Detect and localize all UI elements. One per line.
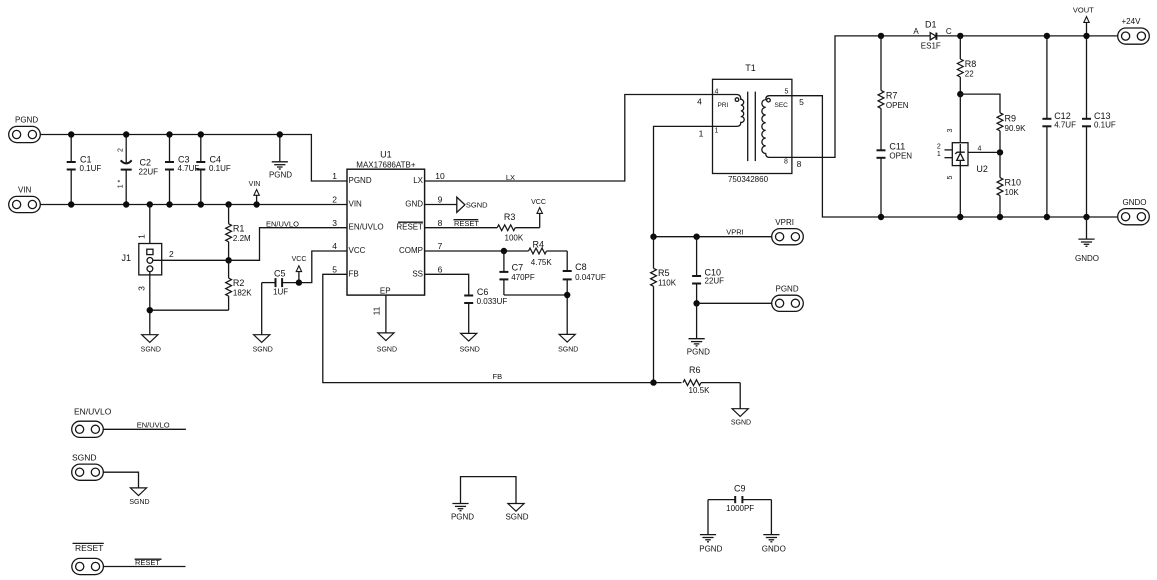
svg-text:4: 4 [978,146,982,153]
junction C13/GNDO rail [1083,214,1089,220]
svg-text:1UF: 1UF [273,288,288,297]
resistor R7 [878,36,909,150]
svg-text:SGND: SGND [72,453,97,463]
net label RESET [135,558,162,567]
capacitor C13 [1082,36,1116,217]
svg-text:MAX17686ATB+: MAX17686ATB+ [356,160,416,169]
svg-text:RESET: RESET [396,223,423,232]
svg-text:R6: R6 [689,365,701,375]
wire T1 pin1 to VPRI rail [654,126,713,236]
ground GNDO (C9) [762,500,786,554]
svg-text:SGND: SGND [129,499,149,506]
svg-text:PRI: PRI [718,102,729,109]
connector RESET [72,543,104,575]
power flag VCC (C5) [292,256,307,283]
node COMP/C7 [501,248,507,254]
connector PGND (mid) [772,285,804,312]
svg-text:4: 4 [715,89,719,96]
svg-text:0.1UF: 0.1UF [80,164,102,173]
junction C1/PGND rail [68,131,74,137]
svg-text:EN/UVLO: EN/UVLO [349,223,384,232]
resistor R4 [529,239,568,266]
capacitor C1 [67,135,102,205]
svg-text:FB: FB [493,372,503,381]
wire PGND rail [40,135,347,182]
wire C10 node to PGND connector [697,302,772,304]
svg-text:0.047UF: 0.047UF [575,273,606,282]
svg-text:1: 1 [715,128,719,135]
svg-text:R10: R10 [1005,178,1022,188]
svg-text:VPRI: VPRI [775,218,794,227]
svg-text:3: 3 [947,128,954,132]
wire EN/UVLO stub [103,428,186,430]
svg-text:5: 5 [799,97,804,107]
svg-text:SGND: SGND [466,200,488,209]
wire T1 pin5 to GNDO rail [792,96,1118,217]
svg-text:LX: LX [413,176,423,185]
ground SGND (EP) [377,333,397,354]
svg-text:C2: C2 [140,158,152,168]
wire R2 bottom to J1 pin3 [150,309,229,311]
diode D1 ES1F [913,20,952,51]
ground PGND (C9) [699,500,722,554]
capacitor C12 [1042,36,1076,217]
wire RESET pin8 [425,227,498,229]
junction C2/VIN rail [123,201,129,207]
power flag VCC (R3) [531,199,546,228]
wire LX pin10 [425,95,713,182]
svg-text:SS: SS [412,269,423,278]
svg-text:EN/UVLO: EN/UVLO [266,219,299,228]
junction J1/VIN rail [147,201,153,207]
svg-text:0.1UF: 0.1UF [1094,120,1116,129]
wire top rail after D1 [937,35,1118,37]
svg-text:C9: C9 [734,483,746,493]
svg-text:2: 2 [937,144,941,151]
svg-text:0.033UF: 0.033UF [477,297,508,306]
svg-text:PGND: PGND [269,171,292,180]
ground PGND (C10) [687,303,710,356]
svg-text:8: 8 [797,159,802,169]
svg-text:EN/UVLO: EN/UVLO [74,407,112,417]
core lines [747,92,749,162]
svg-text:90.9K: 90.9K [1005,124,1027,133]
svg-text:C7: C7 [512,263,524,273]
junction C3/VIN rail [166,201,172,207]
ground PGND (tie) [451,504,474,522]
svg-text:8: 8 [438,218,443,228]
svg-text:R8: R8 [965,59,977,69]
svg-text:VPRI: VPRI [726,227,744,236]
svg-text:C1: C1 [80,155,92,165]
svg-text:GNDO: GNDO [762,544,786,553]
svg-text:LX: LX [506,173,515,182]
ground SGND flag (pin9) [457,197,488,212]
svg-text:PGND: PGND [776,285,799,294]
svg-text:SGND: SGND [141,347,161,354]
connector SGND [72,453,104,481]
svg-text:5: 5 [785,89,789,96]
pin 11 EP stem [372,295,386,333]
wire VPRI rail [654,236,772,238]
node VPRI/C10 [693,234,699,240]
junction C11/GNDO rail [878,214,884,220]
node R9/R10/U2 pin4 [997,149,1003,155]
shunt regulator U2 [937,94,988,179]
svg-text:OPEN: OPEN [886,101,909,110]
svg-text:VCC: VCC [349,246,366,255]
svg-text:2: 2 [169,249,174,259]
resistor R5 [651,237,677,383]
svg-text:4.7UF: 4.7UF [1054,120,1076,129]
svg-text:U2: U2 [976,164,988,174]
svg-text:C11: C11 [889,142,905,152]
ground PGND (top) [269,135,292,180]
svg-text:1: 1 [699,129,704,139]
svg-text:C8: C8 [575,262,587,272]
junction C12/+24V rail [1044,33,1050,39]
svg-text:+24V: +24V [1122,17,1142,26]
svg-text:0.1UF: 0.1UF [209,164,231,173]
IC U1 MAX17686ATB+ body [347,150,425,296]
svg-text:11: 11 [372,306,382,315]
svg-text:470PF: 470PF [511,273,535,282]
svg-text:22UF: 22UF [705,277,725,286]
svg-text:10: 10 [435,171,445,181]
svg-text:RESET: RESET [75,543,103,553]
node FB/R5 [650,379,656,385]
junction C13/+24V rail [1083,33,1089,39]
wire EN/UVLO net [229,228,347,261]
svg-text:750342860: 750342860 [728,175,769,184]
connector PGND (input) [9,115,41,142]
svg-text:7: 7 [438,241,443,251]
resistor R1 [226,205,251,261]
junction C3/PGND rail [166,131,172,137]
svg-text:SGND: SGND [731,419,751,426]
svg-text:5: 5 [332,265,337,275]
svg-text:22: 22 [965,70,974,79]
connector VIN (input) [9,186,41,213]
svg-text:R5: R5 [658,268,670,278]
ground SGND (C6) [460,333,480,353]
junction C4/VIN rail [198,201,204,207]
primary polarity dot [735,98,739,102]
svg-text:4.7UF: 4.7UF [178,164,200,173]
svg-text:OPEN: OPEN [889,152,912,161]
svg-text:VCC: VCC [531,199,546,206]
svg-text:5: 5 [947,175,954,179]
svg-text:2: 2 [118,148,125,152]
wire C5 left leg down [261,283,263,335]
svg-text:SGND: SGND [460,347,480,354]
resistor R6 [683,365,740,395]
svg-text:4: 4 [697,97,702,107]
svg-text:C: C [946,27,952,36]
svg-text:RESET: RESET [454,219,479,228]
svg-text:R2: R2 [233,278,245,288]
svg-text:SEC: SEC [775,102,789,109]
junction U2 pin5/GNDO rail [957,214,963,220]
svg-text:VCC: VCC [292,256,307,263]
svg-text:VIN: VIN [249,181,261,188]
svg-text:PGND: PGND [451,513,474,522]
svg-text:PGND: PGND [687,347,710,356]
capacitor C2 (polarized) [118,135,159,205]
svg-text:VOUT: VOUT [1073,5,1094,14]
svg-text:10.5K: 10.5K [689,386,711,395]
primary winding [713,95,745,127]
wire U2 pin5 to rail [959,166,961,217]
net label RESET [454,219,480,228]
svg-text:ES1F: ES1F [921,42,941,51]
svg-text:R7: R7 [886,91,898,101]
capacitor C9 [708,483,771,513]
transformer T1 750342860 [713,63,792,184]
wire FB pin5 to FB rail [323,274,682,382]
svg-text:1000PF: 1000PF [726,504,754,513]
connector VPRI [772,218,804,245]
wire VIN rail [40,204,347,206]
secondary winding [762,96,792,158]
secondary polarity dot [767,98,771,102]
svg-text:182K: 182K [233,289,252,298]
svg-text:SGND: SGND [558,347,578,354]
junction C2/PGND rail [123,131,129,137]
wire R6 to SGND [739,383,741,409]
svg-text:8: 8 [784,159,788,166]
node C8 bottom [564,292,570,298]
svg-text:2.2M: 2.2M [233,234,251,243]
wire PGND-SGND tie [461,477,517,504]
junction C1/VIN rail [68,201,74,207]
svg-text:EN/UVLO: EN/UVLO [137,420,170,429]
junction VIN flag/VIN rail [253,201,259,207]
svg-text:100K: 100K [505,233,524,242]
capacitor C8 [563,251,606,295]
capacitor C3 [165,135,199,205]
resistor R2 [226,260,253,310]
svg-text:GNDO: GNDO [1123,198,1147,207]
capacitor C6 [464,287,507,334]
svg-text:R4: R4 [533,239,545,249]
svg-text:1: 1 [332,171,337,181]
svg-text:PGND: PGND [15,115,38,124]
wire C7/C8 bottoms [504,295,567,334]
node C10/PGND [693,300,699,306]
svg-text:1: 1 [137,234,147,239]
node R8 top [957,33,963,39]
svg-text:SGND: SGND [253,347,273,354]
junction C12/GNDO rail [1044,214,1050,220]
svg-text:9: 9 [438,195,443,205]
wire node to R9 [960,94,1000,113]
connector EN/UVLO [72,407,112,438]
ground SGND (connector) [129,488,149,506]
svg-text:EP: EP [380,287,391,296]
junction R10/GNDO rail [997,214,1003,220]
node R1/R2/J1 [225,257,231,263]
capacitor C4 [196,135,231,205]
svg-text:22UF: 22UF [139,168,159,177]
node J1 pin3 / R2 [147,307,153,313]
svg-text:1 *: 1 * [118,179,125,188]
resistor R9 [997,113,1026,153]
svg-text:SGND: SGND [377,347,397,354]
svg-text:D1: D1 [925,20,937,30]
svg-text:T1: T1 [745,63,756,73]
ground SGND (J1) [141,335,161,354]
connector GNDO [1118,198,1150,225]
wire GND pin9 [425,204,457,206]
svg-text:C6: C6 [477,287,489,297]
power flag VOUT [1073,5,1094,36]
jumper J1 [122,205,229,335]
svg-text:PGND: PGND [349,176,372,185]
ground SGND (R6) [731,409,751,427]
capacitor C11 [877,142,913,218]
svg-text:R9: R9 [1005,114,1017,124]
svg-text:4: 4 [332,241,337,251]
wire SS pin6 [425,274,469,295]
resistor R3 [497,212,540,242]
svg-text:J1: J1 [122,253,132,263]
power flag VIN [249,181,261,205]
wire U2 pin4 [968,151,1000,153]
svg-text:3: 3 [137,286,147,291]
node R7 top [878,33,884,39]
svg-text:C5: C5 [274,268,286,278]
svg-text:FB: FB [349,269,359,278]
node VPRI/R5 [650,234,656,240]
svg-text:COMP: COMP [399,246,423,255]
svg-text:C3: C3 [178,155,190,165]
wire COMP pin7 [425,250,529,252]
svg-text:GNDO: GNDO [1075,254,1099,263]
ground SGND (C8) [558,334,578,353]
capacitor C5 [262,268,299,296]
svg-text:10K: 10K [1005,188,1020,197]
junction PGND symbol/rail [277,131,283,137]
wire RESET stub [103,566,185,568]
resistor R10 [997,152,1021,217]
svg-text:1: 1 [937,151,941,158]
svg-text:R3: R3 [504,212,516,222]
resistor R8 [957,36,976,94]
wire VCC node to pin4 [299,251,347,283]
svg-text:2: 2 [332,195,337,205]
svg-text:PGND: PGND [699,544,722,553]
capacitor C10 [692,237,724,304]
svg-text:R1: R1 [233,224,245,234]
svg-text:VIN: VIN [349,200,363,209]
ground SGND (tie) [505,504,528,522]
capacitor C7 [499,251,534,295]
svg-text:C4: C4 [210,155,222,165]
svg-text:6: 6 [438,265,443,275]
svg-text:GND: GND [405,200,423,209]
junction C4/PGND rail [198,131,204,137]
svg-text:SGND: SGND [505,513,528,522]
node VCC/C5 [296,279,302,285]
wire SGND stub [103,472,138,488]
ground SGND (C5) [253,335,273,354]
connector +24V [1118,17,1150,44]
svg-text:U1: U1 [380,150,392,160]
svg-text:4.75K: 4.75K [531,258,553,267]
svg-text:VIN: VIN [18,186,32,195]
node R8/R9/U2 [957,91,963,97]
svg-text:3: 3 [332,218,337,228]
svg-text:A: A [913,27,919,36]
ground GNDO (C13) [1075,217,1099,263]
wire T1 pin8 to top rail [792,36,930,157]
svg-text:110K: 110K [658,278,677,287]
junction R1/VIN rail [225,201,231,207]
